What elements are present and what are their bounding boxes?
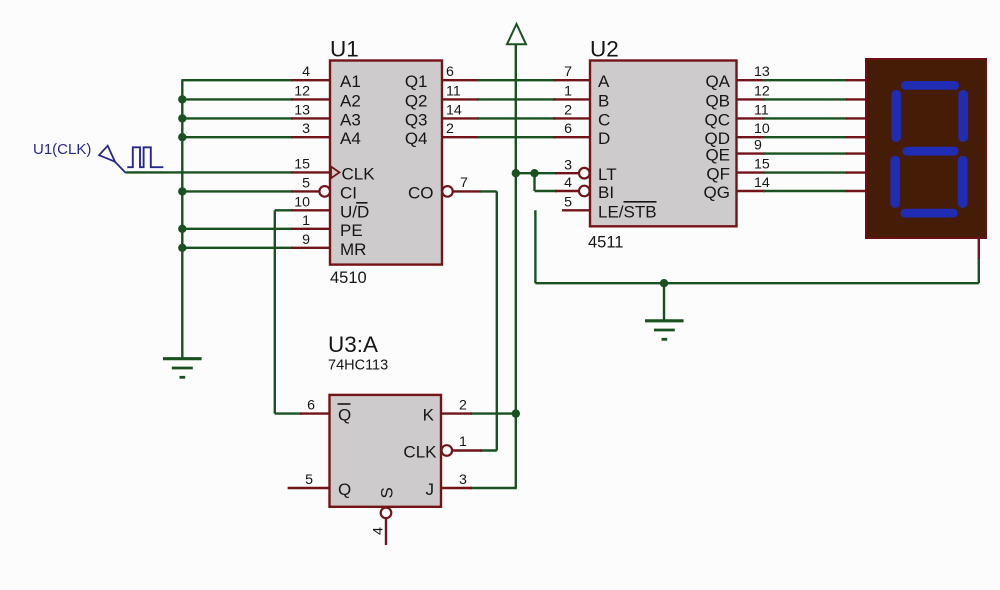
display segment g xyxy=(903,147,959,156)
U3 pin S (pin 4) xyxy=(371,519,387,545)
display pin stub QD xyxy=(846,136,866,138)
svg-text:A1: A1 xyxy=(340,72,361,91)
svg-text:Q1: Q1 xyxy=(405,72,428,91)
U1 U/D overline xyxy=(356,202,367,204)
wire CLK net horizontal xyxy=(126,171,293,173)
wire ground stem xyxy=(663,283,665,320)
svg-text:6: 6 xyxy=(564,121,572,137)
svg-text:S: S xyxy=(378,487,397,498)
svg-text:QB: QB xyxy=(705,91,730,110)
svg-text:C: C xyxy=(598,110,610,129)
pulse generator symbol xyxy=(99,146,126,173)
U1 pin Q1 (pin 6) xyxy=(405,64,479,91)
svg-text:A2: A2 xyxy=(340,91,361,110)
svg-text:1: 1 xyxy=(564,83,572,99)
display pin stub QG xyxy=(846,190,866,192)
wire Q2-B xyxy=(477,98,556,100)
svg-text:13: 13 xyxy=(754,64,770,80)
clock waveform glyph xyxy=(127,147,163,167)
svg-text:4: 4 xyxy=(302,64,310,80)
op IC U3 body (74HC113 JK flip-flop) xyxy=(330,395,442,507)
svg-text:9: 9 xyxy=(302,232,310,248)
wire LE net vertical xyxy=(534,210,536,283)
wire A4 row xyxy=(182,136,293,138)
svg-text:12: 12 xyxy=(754,83,770,99)
op IC U1 body (4510) xyxy=(330,61,442,265)
junction dot LT/BI branch xyxy=(530,169,538,177)
svg-text:Q: Q xyxy=(338,406,351,425)
U1 pin A2 (pin 12) xyxy=(291,83,361,110)
U1 pin A1 (pin 4) xyxy=(291,64,361,91)
svg-text:3: 3 xyxy=(459,472,467,488)
U1 pin U/D (pin 10) xyxy=(291,194,369,221)
svg-text:U2: U2 xyxy=(590,37,619,62)
U1 pin A4 (pin 3) xyxy=(291,121,361,148)
display common pin stub xyxy=(978,238,980,259)
svg-text:Q2: Q2 xyxy=(405,91,428,110)
wire QG to display xyxy=(763,190,847,192)
svg-text:Q: Q xyxy=(338,480,351,499)
svg-text:6: 6 xyxy=(307,398,315,414)
svg-text:U1: U1 xyxy=(330,37,359,62)
svg-text:10: 10 xyxy=(294,194,310,210)
svg-text:14: 14 xyxy=(446,102,462,118)
svg-text:CLK: CLK xyxy=(342,164,376,183)
U3 pin Q (pin 5) xyxy=(288,472,352,499)
svg-text:A: A xyxy=(598,72,610,91)
U1 pin CO (pin 7) xyxy=(408,175,481,203)
U2 pin QF (pin 15) xyxy=(706,157,769,184)
ground symbol left xyxy=(163,359,202,378)
wire input bus vertical xyxy=(181,80,183,358)
wire U/D net vertical xyxy=(274,210,276,413)
wire Q1-A stub at U2 xyxy=(553,79,590,81)
display segment a xyxy=(901,81,959,90)
svg-text:QA: QA xyxy=(705,72,730,91)
U2 BI inversion bubble xyxy=(579,186,590,197)
svg-text:2: 2 xyxy=(459,398,467,414)
junction dot bus/A2 xyxy=(178,95,186,103)
wire QC to display xyxy=(763,117,847,119)
wire CO net horizontal xyxy=(480,190,497,192)
junction dot rail/LT xyxy=(512,169,520,177)
svg-text:MR: MR xyxy=(340,240,366,259)
svg-text:6: 6 xyxy=(446,64,454,80)
op IC U2 body (4511) xyxy=(590,61,737,227)
svg-text:U/D: U/D xyxy=(340,202,369,221)
svg-text:Q3: Q3 xyxy=(405,110,428,129)
svg-text:QG: QG xyxy=(704,183,730,202)
display segment f xyxy=(891,90,901,142)
svg-text:5: 5 xyxy=(302,175,310,191)
svg-text:U3:A: U3:A xyxy=(328,332,378,357)
svg-text:CI: CI xyxy=(340,183,357,202)
U1 CLK edge-triangle mark xyxy=(331,167,340,179)
display pin stub QC xyxy=(846,117,866,119)
U1 pin Q3 (pin 14) xyxy=(405,102,479,129)
wire PE row xyxy=(182,228,293,230)
svg-text:D: D xyxy=(598,129,610,148)
wire A2 row xyxy=(182,98,293,100)
U3 pin Qbar (pin 6) xyxy=(300,398,351,425)
svg-text:74HC113: 74HC113 xyxy=(328,358,388,374)
svg-text:14: 14 xyxy=(754,175,770,191)
U1 CO inversion bubble xyxy=(442,186,453,197)
U1 pin Q4 (pin 2) xyxy=(405,121,479,148)
wire A1 row xyxy=(181,79,293,81)
svg-text:BI: BI xyxy=(598,183,614,202)
wire BI stub xyxy=(555,190,579,192)
U1 pin MR (pin 9) xyxy=(291,232,366,259)
U1 pin A3 (pin 13) xyxy=(291,102,361,129)
svg-text:3: 3 xyxy=(302,121,310,137)
U1 CI inversion bubble xyxy=(319,186,330,197)
wire QD to display xyxy=(763,136,847,138)
svg-text:4511: 4511 xyxy=(588,234,623,252)
display pin stub QE xyxy=(846,152,866,154)
svg-text:15: 15 xyxy=(754,157,770,173)
svg-text:1: 1 xyxy=(459,434,467,450)
wire Q4-D xyxy=(477,136,556,138)
wire BI branch vertical xyxy=(533,173,535,191)
svg-text:J: J xyxy=(426,480,435,499)
svg-text:4510: 4510 xyxy=(330,269,367,287)
wire LT stub xyxy=(555,172,579,174)
ground symbol right xyxy=(645,321,684,340)
wire Q4-D stub at U2 xyxy=(553,136,590,138)
U3 pin CLK (pin 1) xyxy=(403,434,482,462)
power symbol VDD arrow xyxy=(507,24,526,44)
U2 LE/STB overline xyxy=(624,201,657,203)
U2 pin LE/STB (pin 5) xyxy=(562,194,657,221)
wire QE to display xyxy=(763,152,847,154)
junction dot bus/PE xyxy=(178,225,186,233)
svg-text:CLK: CLK xyxy=(403,443,437,462)
wire QA to display xyxy=(763,79,847,81)
svg-text:11: 11 xyxy=(446,83,461,99)
U2 pin QC (pin 11) xyxy=(705,102,769,129)
wire A3 row xyxy=(182,117,293,119)
svg-text:LT: LT xyxy=(598,165,617,184)
svg-text:10: 10 xyxy=(754,121,770,137)
wire QB to display xyxy=(763,98,847,100)
U1 pin CI (pin 5) xyxy=(291,175,357,202)
svg-text:QC: QC xyxy=(705,110,731,129)
junction dot bus/A3 xyxy=(178,114,186,122)
svg-text:7: 7 xyxy=(460,175,468,191)
junction dot bus/MR xyxy=(178,244,186,252)
display segment d xyxy=(901,209,958,218)
U2 LT inversion bubble xyxy=(579,168,590,179)
wire Q3-C stub at U2 xyxy=(553,117,590,119)
U2 pin QB (pin 12) xyxy=(705,83,769,110)
svg-text:A3: A3 xyxy=(340,110,361,129)
svg-text:U1(CLK): U1(CLK) xyxy=(33,141,91,158)
svg-text:CO: CO xyxy=(408,183,434,202)
wire K row xyxy=(470,412,516,414)
svg-text:2: 2 xyxy=(564,102,572,118)
svg-text:K: K xyxy=(423,406,435,425)
svg-text:QF: QF xyxy=(706,165,730,184)
wire CO net vertical xyxy=(496,191,498,450)
wire LT row xyxy=(516,172,557,174)
svg-text:15: 15 xyxy=(294,156,310,172)
svg-text:B: B xyxy=(598,91,609,110)
svg-text:3: 3 xyxy=(564,157,572,173)
U1 pin Q2 (pin 11) xyxy=(405,83,479,110)
junction dot bus/A4 xyxy=(178,133,186,141)
wire MR row xyxy=(182,247,293,249)
wire display common vertical xyxy=(978,258,980,283)
wire BI row xyxy=(535,190,558,192)
wire Q3-C xyxy=(477,117,556,119)
junction dot rail/K xyxy=(512,409,520,417)
svg-text:1: 1 xyxy=(302,213,310,229)
U3 pin J (pin 3) xyxy=(426,472,473,499)
U2 pin QG (pin 14) xyxy=(704,175,770,202)
junction dot bus/CI xyxy=(178,187,186,195)
svg-text:4: 4 xyxy=(564,175,572,191)
U2 pin QD (pin 10) xyxy=(705,121,770,148)
U1 pin CLK (pin 15) xyxy=(291,156,375,183)
7-segment display body xyxy=(866,59,986,238)
display segment c xyxy=(958,156,968,208)
svg-text:4: 4 xyxy=(371,527,387,535)
display pin stub QA xyxy=(846,79,866,81)
wire Q2-B stub at U2 xyxy=(553,98,590,100)
svg-text:Q4: Q4 xyxy=(405,129,428,148)
svg-text:7: 7 xyxy=(564,64,572,80)
display segment b xyxy=(958,90,968,142)
wire power rail vertical xyxy=(515,44,517,488)
U3 CLK inversion bubble xyxy=(442,445,453,456)
wire QF to display xyxy=(763,171,847,173)
svg-text:5: 5 xyxy=(305,472,313,488)
display pin stub QF xyxy=(846,171,866,173)
svg-text:2: 2 xyxy=(446,121,454,137)
wire U3 CLK row xyxy=(480,449,497,451)
U3 S inversion bubble xyxy=(381,508,392,519)
svg-text:QE: QE xyxy=(705,146,730,165)
svg-text:12: 12 xyxy=(294,83,310,99)
wire J row xyxy=(470,487,517,489)
display pin stub QB xyxy=(846,98,866,100)
svg-text:PE: PE xyxy=(340,221,363,240)
display segment e xyxy=(890,156,900,208)
wire Q1-A xyxy=(477,79,556,81)
svg-text:5: 5 xyxy=(564,194,572,210)
wire U/D row xyxy=(275,209,293,211)
U1 pin PE (pin 1) xyxy=(291,213,363,240)
svg-text:LE/STB: LE/STB xyxy=(598,202,657,221)
wire U3 Qbar row xyxy=(275,412,302,414)
svg-text:11: 11 xyxy=(754,102,769,118)
wire CI row xyxy=(182,190,293,192)
junction dot ground net xyxy=(660,279,668,287)
svg-text:13: 13 xyxy=(294,102,310,118)
U2 pin QE (pin 9) xyxy=(705,138,765,165)
U3 Qbar overline xyxy=(338,403,351,405)
wire LE net horizontal xyxy=(535,282,978,284)
U3 pin K (pin 2) xyxy=(423,398,472,425)
svg-text:9: 9 xyxy=(754,138,762,154)
svg-text:A4: A4 xyxy=(340,129,361,148)
U2 pin QA (pin 13) xyxy=(705,64,769,91)
